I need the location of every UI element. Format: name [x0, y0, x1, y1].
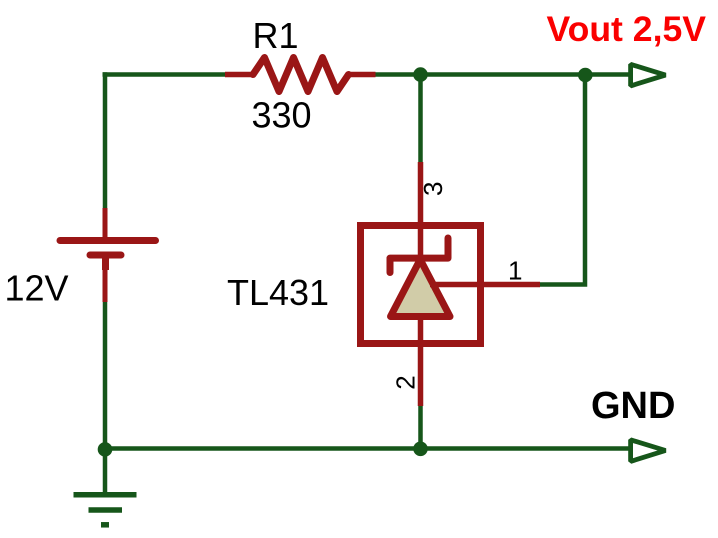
anode triangle — [391, 260, 451, 317]
Vout output terminal arrow — [631, 64, 666, 86]
node junction at Vout tap — [578, 68, 593, 83]
svg-text:GND: GND — [591, 385, 675, 427]
wire: reference feedback net (TL431 pin 1 to Vout node) — [540, 75, 586, 285]
node junction at battery / ground rail — [98, 442, 113, 457]
wire: anode net vertical (TL431 pin 2 to ground rail) — [418, 405, 423, 449]
pin 2 lead (anode) — [418, 317, 424, 407]
wire: top rail, R1 to Vout arrow — [374, 72, 630, 77]
node junction at R1 / TL431 cathode — [413, 67, 428, 82]
battery B1 — [60, 208, 156, 302]
IC U1 TL431 — [361, 162, 541, 406]
wire: cathode net vertical (top rail to TL431 pin 3) — [418, 75, 423, 165]
wire: bottom ground rail — [103, 446, 630, 451]
svg-text:330: 330 — [252, 95, 312, 136]
pin 1 lead (reference) — [430, 282, 540, 288]
svg-text:2: 2 — [391, 375, 421, 389]
wire: left rail upper (battery +) — [103, 72, 108, 210]
svg-text:12V: 12V — [5, 268, 69, 309]
svg-text:TL431: TL431 — [227, 272, 329, 313]
svg-text:3: 3 — [418, 182, 448, 196]
GND output terminal arrow — [631, 440, 666, 462]
wire: left rail lower (battery -) — [103, 300, 108, 449]
svg-text:1: 1 — [508, 255, 522, 285]
node junction at TL431 anode / ground rail — [413, 442, 428, 457]
wire: +12V top rail, battery to R1 — [103, 72, 228, 77]
resistor R1 — [225, 58, 376, 92]
package box — [361, 226, 481, 344]
pin 3 lead (cathode) — [418, 162, 424, 258]
svg-text:Vout 2,5V: Vout 2,5V — [547, 9, 707, 49]
svg-text:R1: R1 — [253, 15, 299, 56]
ground symbol — [74, 449, 137, 525]
cathode bar with hooks — [390, 238, 448, 273]
